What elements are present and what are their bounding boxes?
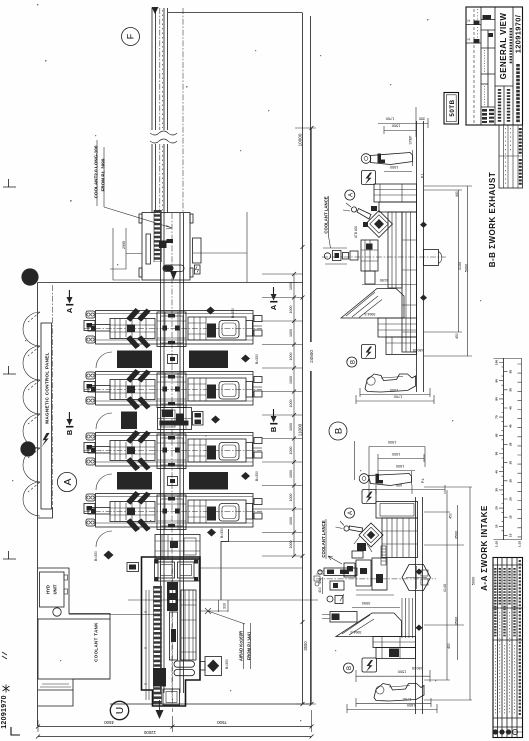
bottom circles row <box>493 729 498 734</box>
svg-text:B=350: B=350 <box>255 354 259 364</box>
G2 top conveyor area <box>94 7 311 704</box>
svg-text:B=350: B=350 <box>225 659 229 669</box>
svg-text:650: 650 <box>396 483 402 487</box>
pump valve bits left <box>314 576 320 581</box>
svg-text:1:10: 1:10 <box>495 541 499 547</box>
svg-text:1500: 1500 <box>392 124 400 128</box>
svg-text:FROM P.L 3999: FROM P.L 3999 <box>101 158 106 191</box>
loader dim bracket <box>113 228 140 280</box>
gap arc 4 <box>96 531 112 547</box>
dim line mid <box>356 670 430 682</box>
header text smudges <box>495 568 514 637</box>
svg-text:1500: 1500 <box>392 452 400 456</box>
transfer spine rails <box>161 213 184 693</box>
svg-text:1700: 1700 <box>386 117 394 121</box>
svg-text:B: B <box>350 360 356 364</box>
svg-text:A: A <box>348 193 354 197</box>
base plates <box>373 637 416 648</box>
spindle axis <box>322 256 446 258</box>
panel door arc 5 <box>23 448 40 482</box>
left rail lines <box>144 590 149 700</box>
chain extension stubs <box>262 274 302 556</box>
station row 3 <box>84 430 262 471</box>
balloon F <box>122 28 140 46</box>
profile bottom dim <box>384 171 412 173</box>
control panel box <box>41 323 52 509</box>
angled head <box>366 211 393 238</box>
loader bay wall <box>110 228 142 269</box>
svg-text:25: 25 <box>509 479 513 483</box>
hall left wall <box>37 283 39 727</box>
svg-text:B=350: B=350 <box>231 308 235 318</box>
svg-text:1700: 1700 <box>394 395 402 399</box>
machine column <box>402 212 417 352</box>
chain ticks <box>292 272 296 558</box>
base plates <box>378 318 417 337</box>
conveyor left rail <box>152 8 156 213</box>
station row 4 <box>84 491 262 532</box>
floor line <box>416 497 423 714</box>
svg-text:GENERAL VIEW: GENERAL VIEW <box>499 13 508 80</box>
bottom dim lines <box>347 698 437 713</box>
svg-text:F: F <box>126 33 136 39</box>
mid column cells <box>481 20 495 108</box>
dim ticks main <box>301 126 314 706</box>
svg-text:B: B <box>347 666 353 670</box>
black dot lower <box>20 441 35 456</box>
diamond below row4 <box>207 529 216 537</box>
registration mark top-left <box>3 179 16 187</box>
gap arc 1 <box>96 352 112 368</box>
svg-text:5000: 5000 <box>472 577 476 585</box>
1000 labels <box>289 282 293 549</box>
upper slab <box>376 502 418 519</box>
rev column cells <box>466 25 481 44</box>
roller chain vertical <box>154 586 162 704</box>
svg-text:450: 450 <box>449 513 453 519</box>
svg-text:3964,5: 3964,5 <box>365 312 376 316</box>
svg-text:50: 50 <box>494 452 498 456</box>
section arrow A left <box>65 290 74 313</box>
loader down arrow <box>170 271 177 280</box>
svg-text:310: 310 <box>223 603 227 609</box>
sub table below title <box>499 125 523 188</box>
hall bottom boundary <box>110 703 311 705</box>
loader guard fence <box>193 212 247 282</box>
conveyor inner dots <box>162 10 164 211</box>
right dim 5000 <box>424 186 472 356</box>
svg-text:COOLANT LANCE: COOLANT LANCE <box>321 520 326 557</box>
svg-text:A-A ΣWORK INTAKE: A-A ΣWORK INTAKE <box>480 505 489 591</box>
svg-text:COOLANT LANCE: COOLANT LANCE <box>324 196 329 233</box>
bottom dim lines <box>356 388 434 404</box>
bottom dim line 1 <box>38 726 311 728</box>
svg-text:1000: 1000 <box>289 494 293 502</box>
dark hoist blob <box>167 582 178 611</box>
G4 right dimension chain <box>262 126 316 706</box>
G5 bottom-left machines <box>36 557 318 739</box>
svg-text:24500: 24500 <box>309 350 314 363</box>
column rails lower <box>402 598 413 638</box>
svg-text:1000: 1000 <box>289 306 293 314</box>
pipe run line 1 <box>69 600 318 615</box>
right inner column <box>181 590 196 660</box>
svg-text:1000: 1000 <box>289 423 293 431</box>
spine centerline <box>171 213 173 700</box>
svg-text:45: 45 <box>509 406 513 410</box>
svg-text:B: B <box>65 430 74 435</box>
panel bolt glyph <box>42 433 50 447</box>
mid cluster <box>344 563 355 577</box>
utility bay outline <box>38 568 110 619</box>
top dim lines <box>378 107 428 137</box>
tank step low <box>38 679 110 706</box>
boss cylinder <box>424 250 439 266</box>
svg-text:1:15: 1:15 <box>518 541 522 547</box>
dark block lower left <box>153 668 166 687</box>
section arrow B left <box>65 412 74 435</box>
G1 page marks <box>1 179 20 735</box>
svg-text:12091970/: 12091970/ <box>514 15 523 54</box>
coolant tank <box>38 619 110 679</box>
balloon B small <box>347 357 357 367</box>
balloon A plan <box>57 472 76 491</box>
svg-text:B=350: B=350 <box>94 551 98 561</box>
dark block gap2 left <box>121 412 137 430</box>
lightning box top <box>362 171 376 185</box>
rail pack <box>382 518 418 558</box>
svg-text:3964,5: 3964,5 <box>351 630 362 634</box>
svg-text:4100: 4100 <box>458 262 462 270</box>
gap arc 3 <box>96 474 112 490</box>
svg-text:450 05: 450 05 <box>412 666 422 670</box>
panel door chords <box>28 312 40 492</box>
panel door arc 6 <box>23 482 40 516</box>
drill spike left <box>349 526 363 532</box>
exit box bottom <box>163 689 180 705</box>
loader lower capsule <box>163 265 184 272</box>
diamond left exit <box>104 551 114 560</box>
svg-text:50TB: 50TB <box>449 99 456 116</box>
svg-text:HYD: HYD <box>46 585 51 594</box>
work profile bottom <box>374 684 424 702</box>
50TB box <box>444 93 459 125</box>
scale ruler <box>494 358 522 547</box>
svg-text:1500: 1500 <box>398 670 406 674</box>
pump parts <box>327 596 333 602</box>
svg-text:90: 90 <box>494 379 498 383</box>
svg-text:1000: 1000 <box>289 282 293 290</box>
title sub cells <box>495 86 513 125</box>
svg-text:450: 450 <box>447 643 451 649</box>
svg-text:35: 35 <box>509 442 513 446</box>
svg-text:100: 100 <box>494 360 498 365</box>
dark block gap3 right <box>189 472 228 490</box>
cross rail pack <box>388 212 402 288</box>
chain line 1000 pitch <box>293 274 295 556</box>
svg-text:3500: 3500 <box>455 617 459 625</box>
svg-text:U: U <box>115 707 126 714</box>
balloon A small <box>345 190 355 200</box>
G6 section B-B <box>322 107 472 404</box>
svg-text:10000: 10000 <box>298 133 303 146</box>
svg-text:0550: 0550 <box>362 601 370 605</box>
svg-text:A: A <box>62 478 74 485</box>
svg-text:MAGNETIC CONTROL PANEL: MAGNETIC CONTROL PANEL <box>45 352 50 424</box>
diamond gap2 right <box>211 416 220 424</box>
spindle axis <box>316 578 436 580</box>
svg-text:P.L: P.L <box>421 478 425 483</box>
svg-text:A: A <box>65 307 74 313</box>
dark block gap1 right <box>189 351 228 369</box>
machine centerline <box>172 557 174 712</box>
hyd pump circle <box>53 608 61 616</box>
title block column lines <box>481 7 513 125</box>
mid column bottom text blob <box>482 109 487 123</box>
floor diamonds <box>416 569 423 631</box>
svg-text:1000: 1000 <box>289 376 293 384</box>
svg-text:ATB 400: ATB 400 <box>354 226 358 238</box>
svg-text:350: 350 <box>419 117 425 121</box>
intake work profile <box>359 471 411 486</box>
balloon B small <box>344 663 354 673</box>
floor diamonds <box>420 222 427 301</box>
spine support gap1 <box>168 355 178 364</box>
svg-text:440: 440 <box>455 191 459 197</box>
black dot upper <box>21 268 38 285</box>
dim 6190 <box>362 284 416 286</box>
spike up-left <box>357 209 371 220</box>
lightning box bottom <box>362 658 377 672</box>
section arrow B right <box>269 409 278 432</box>
corner L mark bottom-left <box>11 727 20 735</box>
svg-text:6190: 6190 <box>380 278 388 282</box>
pre-exit unit below row4 <box>155 535 200 559</box>
registration mark low-left <box>3 551 16 559</box>
gripper cluster <box>357 543 366 551</box>
panel door arc 4 <box>23 414 40 448</box>
svg-text:B=350: B=350 <box>255 471 259 481</box>
lance arm <box>324 568 357 576</box>
section arrow A right <box>269 287 278 310</box>
svg-text:400: 400 <box>318 578 322 584</box>
svg-text:20: 20 <box>509 497 513 501</box>
wedge unit lower <box>336 613 402 637</box>
G8 right furniture (title block, tables, ruler) <box>444 7 523 738</box>
svg-text:B=350: B=350 <box>220 528 224 538</box>
hyd unit box <box>40 572 65 607</box>
floor line <box>417 121 424 392</box>
parts table <box>493 558 523 738</box>
bottom dim line 2 <box>38 736 311 738</box>
coolant lance pump <box>324 253 330 259</box>
exit down arrow <box>159 700 161 712</box>
svg-text:1800: 1800 <box>407 703 415 707</box>
G7 section A-A <box>314 440 476 714</box>
svg-text:1000: 1000 <box>289 517 293 525</box>
loader chain magazine <box>154 210 161 262</box>
svg-text:60: 60 <box>494 433 498 437</box>
svg-text:1000: 1000 <box>289 470 293 478</box>
mid transfer unit <box>158 408 204 430</box>
right dim 4100 <box>424 190 462 332</box>
svg-text:80: 80 <box>494 397 498 401</box>
work profile top <box>361 150 412 166</box>
400 labels <box>322 577 324 594</box>
panel door arc 3 <box>23 380 40 414</box>
svg-text:40: 40 <box>509 424 513 428</box>
wall dash-dot continuation <box>52 285 54 505</box>
svg-text:30: 30 <box>494 488 498 492</box>
dark block gap3 left <box>117 472 152 490</box>
conveyor top arrow <box>152 7 159 14</box>
svg-text:1000: 1000 <box>289 541 293 549</box>
spindle slide rect <box>170 612 178 660</box>
svg-text:1500: 1500 <box>396 464 404 468</box>
angled head <box>359 523 383 547</box>
svg-text:COOLANT2.0 LONG-100: COOLANT2.0 LONG-100 <box>94 145 99 198</box>
svg-text:1500: 1500 <box>390 388 398 392</box>
dim 310 <box>200 600 228 612</box>
svg-text:1900: 1900 <box>388 440 396 444</box>
svg-text:400: 400 <box>318 587 322 593</box>
below-head stand <box>361 240 378 271</box>
spine support gap3 <box>168 477 178 486</box>
leader from note to loader <box>104 207 172 229</box>
panel door arc 2 <box>23 346 40 380</box>
svg-text:11000: 11000 <box>298 423 303 436</box>
balloon U <box>110 701 128 719</box>
station row 2 <box>84 369 262 410</box>
svg-text:1000: 1000 <box>289 400 293 408</box>
svg-text:B: B <box>269 427 278 432</box>
right dim lines <box>424 490 450 680</box>
bottom profile <box>365 374 416 392</box>
loader machine body <box>139 213 193 281</box>
svg-text:3500: 3500 <box>303 641 308 651</box>
diamond gap1 right <box>241 355 250 363</box>
svg-text:COOLANT TANK: COOLANT TANK <box>94 622 99 662</box>
svg-text:1500: 1500 <box>390 165 398 169</box>
svg-text:STEP: STEP <box>409 135 413 145</box>
conveyor right rail <box>164 8 168 213</box>
svg-text:1000: 1000 <box>289 447 293 455</box>
hall right wall double line <box>303 13 311 705</box>
pallet station top <box>155 560 200 582</box>
svg-text:2995: 2995 <box>122 241 126 249</box>
svg-text:A: A <box>269 304 278 310</box>
lower wedge unit <box>341 289 404 319</box>
balloon A small <box>345 508 355 518</box>
svg-text:B-B ΣWORK EXHAUST: B-B ΣWORK EXHAUST <box>488 172 497 268</box>
dim 0550 <box>352 607 400 609</box>
u-tube capsules <box>174 661 195 667</box>
svg-text:10: 10 <box>494 524 498 528</box>
balloon B plan <box>329 422 347 440</box>
hexagon fixture <box>402 565 431 591</box>
conveyor centerline dash-dot <box>159 8 161 213</box>
note underline <box>97 140 104 207</box>
lightning box top <box>362 490 376 504</box>
title block outer <box>466 7 523 125</box>
line centerline right dash-dot <box>182 8 184 213</box>
station row 1 <box>84 308 262 349</box>
svg-text:4500: 4500 <box>104 720 114 725</box>
svg-text:4140: 4140 <box>443 584 447 592</box>
svg-text:12000: 12000 <box>143 730 156 735</box>
svg-text:450 05: 450 05 <box>413 348 423 352</box>
svg-text:40: 40 <box>494 470 498 474</box>
arm leader arrow <box>328 556 342 564</box>
svg-text:10: 10 <box>509 533 513 537</box>
diamond row1 <box>206 307 215 315</box>
svg-text:A: A <box>348 511 354 515</box>
svg-text:15: 15 <box>509 515 513 519</box>
svg-text:70: 70 <box>494 415 498 419</box>
svg-text:1000: 1000 <box>289 329 293 337</box>
diamond gap3 right <box>241 472 250 480</box>
hall top boundary line <box>168 12 302 14</box>
head machine outline bold <box>142 557 201 706</box>
hyd unit tabs <box>64 575 68 580</box>
dark block gap1 left <box>117 351 152 369</box>
conveyor break squiggle <box>150 131 177 143</box>
tiny mark left edge <box>2 652 7 659</box>
svg-text:55: 55 <box>509 370 513 374</box>
24500 dim line <box>311 128 313 704</box>
svg-text:1000: 1000 <box>289 353 293 361</box>
loader right attachment <box>193 238 202 263</box>
svg-text:12091970: 12091970 <box>1 695 8 729</box>
air note leader <box>205 608 245 624</box>
top dim line <box>376 485 445 494</box>
company name column <box>516 64 520 123</box>
svg-text:AIRAD Ko16)/R: AIRAD Ko16)/R <box>239 631 244 661</box>
svg-text:30: 30 <box>509 461 513 465</box>
hall top boundary <box>38 282 303 284</box>
svg-text:5000: 5000 <box>465 264 469 272</box>
tank step shading <box>40 684 71 687</box>
panel door arc 1 <box>23 312 40 346</box>
exit bay step boundary <box>221 529 229 600</box>
svg-text:7500: 7500 <box>217 720 227 725</box>
svg-text:3500: 3500 <box>455 531 459 539</box>
diamond box right of machine <box>205 657 222 676</box>
svg-text:1700: 1700 <box>403 697 411 701</box>
lightning box bottom <box>362 345 376 359</box>
svg-text:UNIT: UNIT <box>53 584 58 594</box>
svg-text:B: B <box>334 428 345 434</box>
svg-text:50: 50 <box>509 388 513 392</box>
machine left attachment <box>127 563 139 572</box>
loader dark gripper <box>159 241 167 249</box>
svg-text:450: 450 <box>455 333 459 339</box>
gap arc 2 <box>96 413 112 429</box>
intake dim lines above <box>355 441 426 495</box>
registration mark mid-left <box>3 366 16 374</box>
upper slab wide <box>374 184 417 202</box>
left arm lower <box>330 612 357 623</box>
G3 plan view main <box>20 210 347 726</box>
svg-text:20: 20 <box>494 506 498 510</box>
chain ladder small <box>381 546 386 565</box>
